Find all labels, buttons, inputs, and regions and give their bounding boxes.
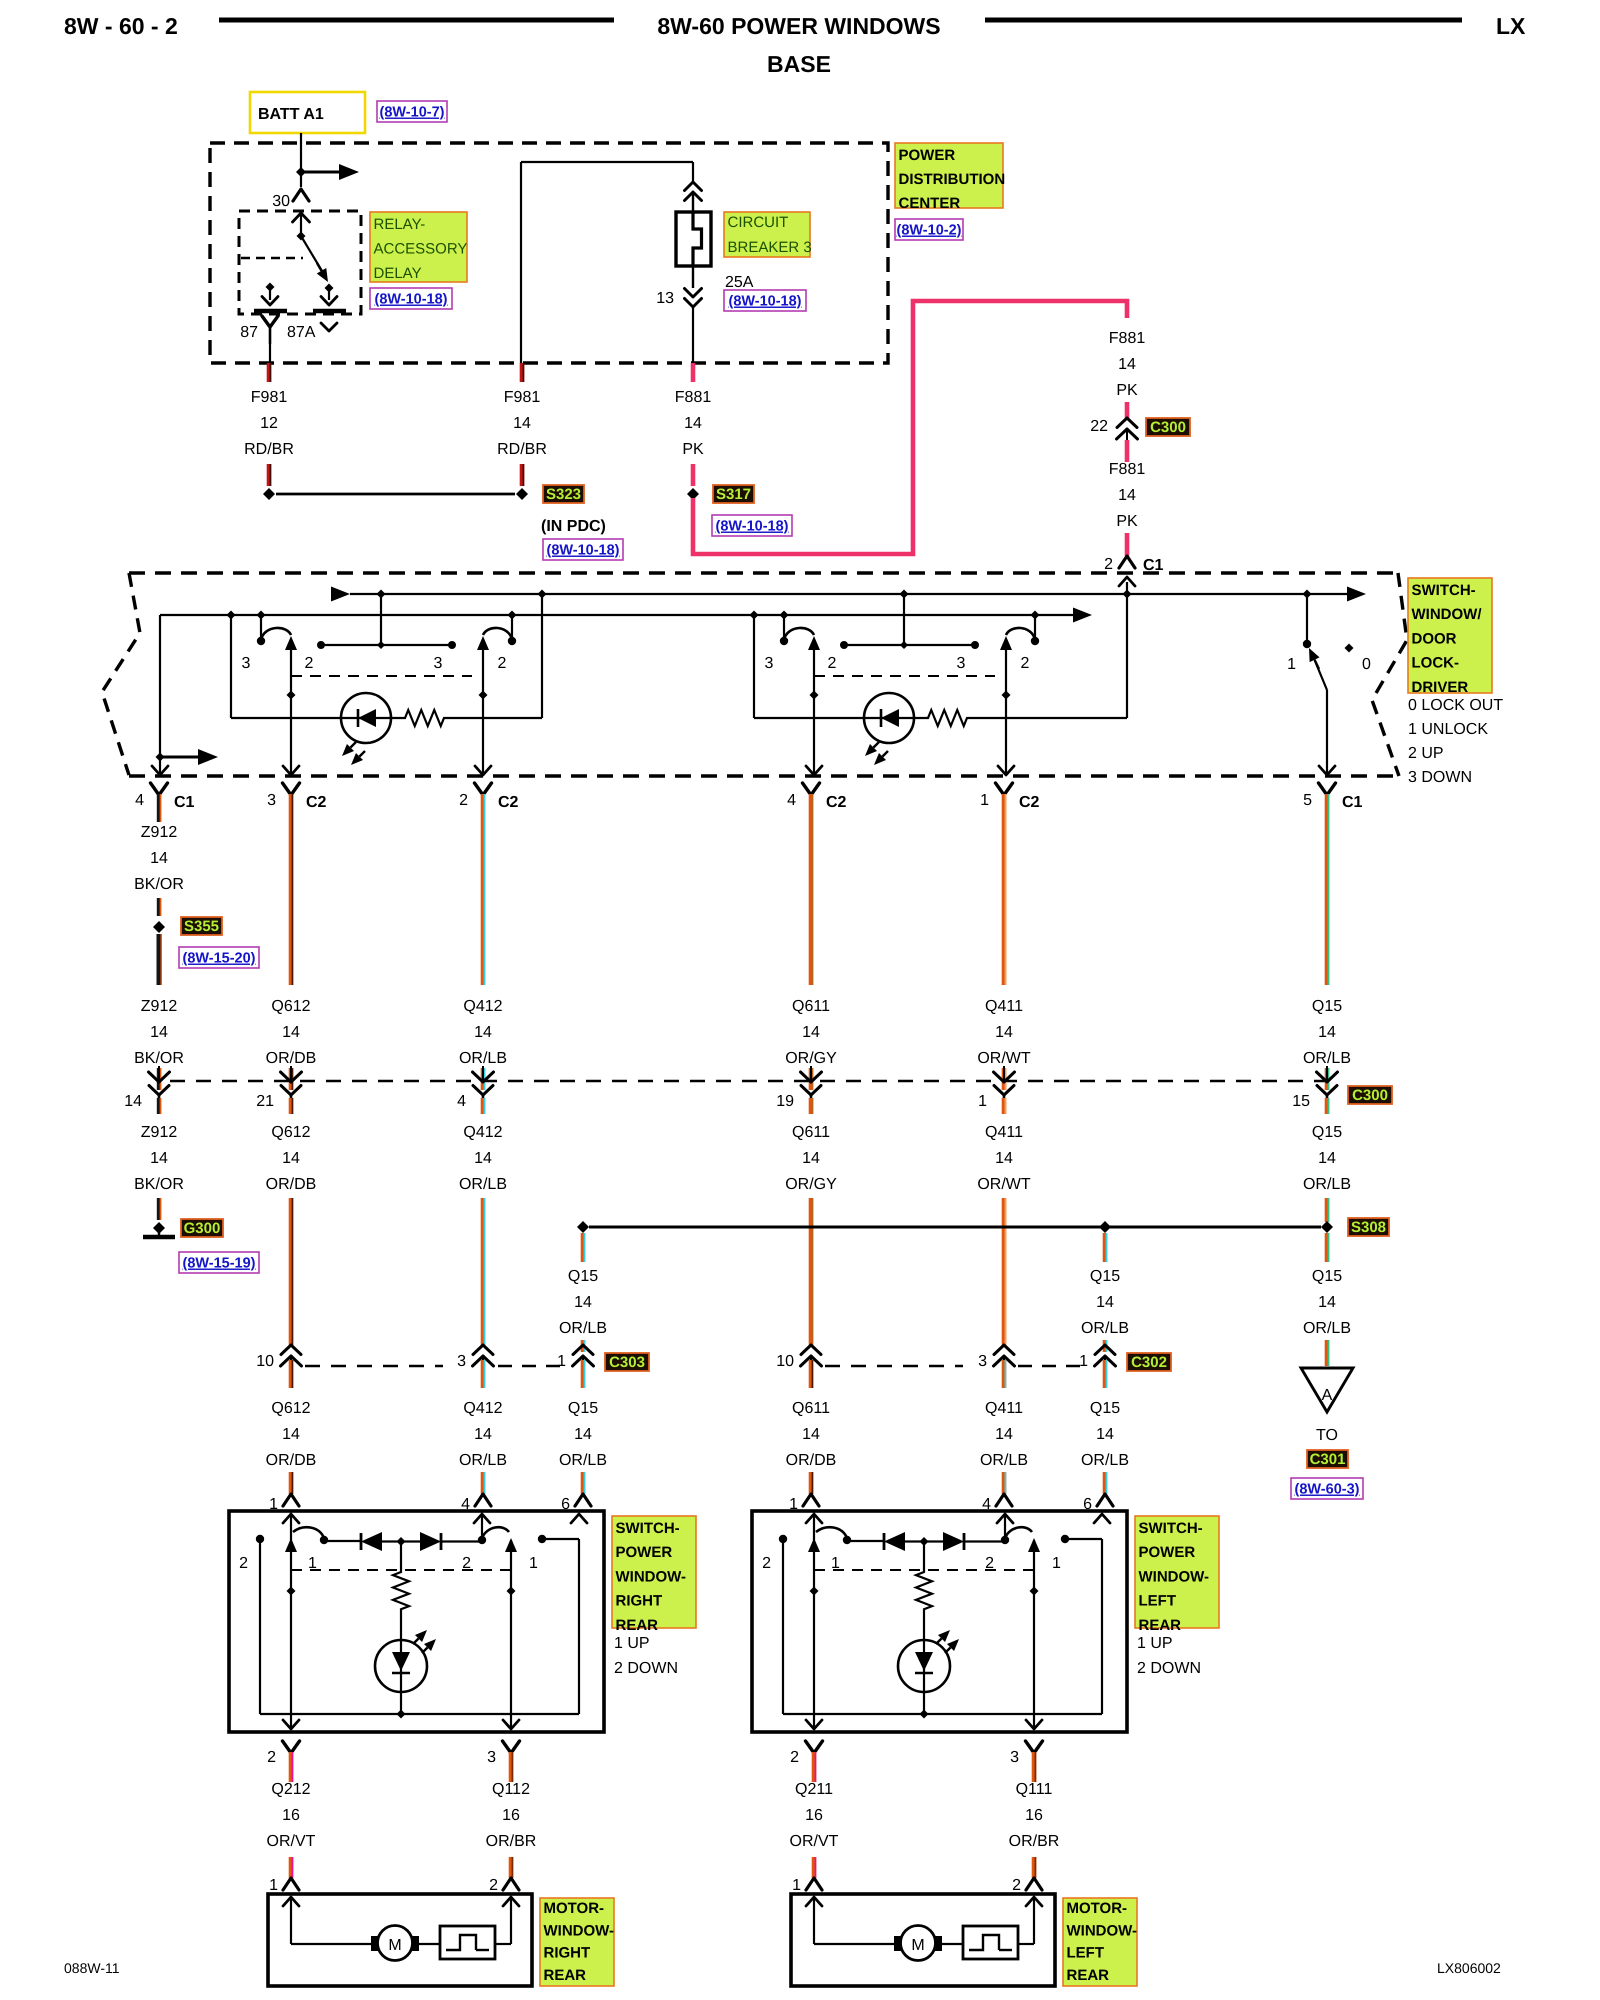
- svg-text:14: 14: [802, 1150, 820, 1167]
- node battery feed junction: [296, 167, 306, 177]
- relay accessory delay box: [239, 211, 361, 314]
- wire Q612 to C303: [289, 1198, 294, 1346]
- wire breaker to PDC edge: [692, 307, 694, 363]
- wiper B wire down: [1005, 648, 1007, 775]
- svg-text:87: 87: [240, 324, 258, 341]
- connector switch output pin 3: [503, 1741, 520, 1753]
- switch power window right rear label: [612, 1516, 696, 1628]
- svg-text:Q611: Q611: [792, 1400, 830, 1417]
- relay terminal 87 connector: [262, 316, 278, 327]
- svg-text:14: 14: [802, 1426, 820, 1443]
- common bar riser to upper rail: [380, 594, 382, 645]
- rocker contact A: [260, 615, 262, 638]
- svg-text:30: 30: [272, 193, 290, 210]
- svg-text:14: 14: [1096, 1294, 1114, 1311]
- svg-text:Q211: Q211: [795, 1781, 833, 1798]
- svg-text:14: 14: [574, 1426, 592, 1443]
- svg-text:14: 14: [474, 1150, 492, 1167]
- wire Q611 14 OR/GY upper: [809, 794, 814, 985]
- resistor riser to upper rail: [1126, 582, 1128, 718]
- splice S308 bus: [589, 1226, 1321, 1229]
- svg-text:3: 3: [765, 655, 774, 672]
- svg-text:Q15: Q15: [1090, 1400, 1120, 1417]
- svg-text:Q611: Q611: [792, 1124, 830, 1141]
- svg-text:Q412: Q412: [463, 1400, 502, 1417]
- wire Q15 to S308: [1325, 1198, 1330, 1222]
- svg-text:CENTER: CENTER: [899, 195, 961, 212]
- svg-text:WINDOW-: WINDOW-: [616, 1568, 687, 1585]
- connector C2 pin 3: [283, 783, 300, 795]
- svg-text:LOCK-: LOCK-: [1412, 655, 1460, 672]
- svg-text:14: 14: [1096, 1426, 1114, 1443]
- svg-text:POWER: POWER: [616, 1544, 673, 1561]
- connector C2 pin 1: [996, 783, 1013, 795]
- svg-text:16: 16: [282, 1807, 300, 1824]
- svg-text:3: 3: [978, 1353, 987, 1370]
- motor window right rear box: [268, 1894, 532, 1986]
- svg-text:3: 3: [434, 655, 443, 672]
- LED emission arrows: [350, 742, 356, 748]
- relay blade: [301, 236, 322, 271]
- resistor riser to upper rail: [541, 594, 543, 718]
- connector C300 pin 4: [481, 1068, 486, 1090]
- bottom bus: [783, 1713, 1102, 1715]
- wire Q412 14 OR/LB upper: [481, 794, 486, 985]
- svg-text:14: 14: [150, 850, 168, 867]
- wire F981 12 RD/BR stub: [267, 363, 272, 382]
- circuit breaker element: [693, 212, 702, 266]
- connector motor pin 2: [503, 1878, 519, 1890]
- svg-text:C300: C300: [1150, 419, 1186, 436]
- svg-text:2: 2: [828, 655, 837, 672]
- svg-text:14: 14: [1318, 1024, 1336, 1041]
- svg-text:25A: 25A: [725, 274, 754, 291]
- svg-text:BREAKER 3: BREAKER 3: [728, 239, 812, 256]
- wire Q15 right of S308: [1325, 1233, 1330, 1262]
- connector C2 pin 2: [475, 783, 492, 795]
- svg-text:C2: C2: [1019, 794, 1040, 811]
- svg-text:DRIVER: DRIVER: [1412, 679, 1469, 696]
- rocker arc 2: [481, 1514, 483, 1536]
- reference 8W-60-3: [1291, 1478, 1363, 1499]
- svg-text:14: 14: [124, 1093, 142, 1110]
- relay contact 87 node: [266, 283, 275, 292]
- connector switch pin 4: [475, 1494, 491, 1506]
- svg-text:15: 15: [1292, 1093, 1310, 1110]
- svg-text:MOTOR-: MOTOR-: [544, 1900, 605, 1917]
- svg-text:OR/LB: OR/LB: [1081, 1452, 1129, 1469]
- svg-text:BASE: BASE: [767, 51, 831, 77]
- motor M: [378, 1926, 413, 1961]
- svg-text:(8W-10-7): (8W-10-7): [380, 105, 445, 121]
- relay 87 arrow down: [269, 287, 271, 300]
- svg-text:3 DOWN: 3 DOWN: [1408, 769, 1472, 786]
- connector C302 pin 3: [994, 1345, 1014, 1355]
- connector motor pin 1: [806, 1878, 822, 1890]
- svg-text:OR/DB: OR/DB: [266, 1452, 317, 1469]
- svg-text:Q612: Q612: [271, 998, 310, 1015]
- wire Q412 to C303: [481, 1198, 486, 1346]
- wire C1-4 branch in switch: [159, 615, 161, 764]
- LED lamp: [375, 1640, 427, 1692]
- svg-text:(8W-15-20): (8W-15-20): [182, 951, 255, 967]
- connector C303 pin 1: [573, 1345, 593, 1355]
- svg-text:14: 14: [995, 1150, 1013, 1167]
- svg-text:BK/OR: BK/OR: [134, 876, 184, 893]
- reference 8W-10-18 S317: [712, 515, 792, 536]
- page header rule left: [219, 18, 614, 23]
- svg-text:Q15: Q15: [568, 1400, 598, 1417]
- rocker contact A: [783, 615, 785, 638]
- svg-text:S308: S308: [1351, 1219, 1386, 1236]
- svg-text:OR/LB: OR/LB: [1303, 1320, 1351, 1337]
- svg-text:Q15: Q15: [568, 1268, 598, 1285]
- svg-text:14: 14: [150, 1150, 168, 1167]
- svg-text:16: 16: [805, 1807, 823, 1824]
- page header rule right: [985, 18, 1462, 23]
- svg-text:OR/LB: OR/LB: [459, 1050, 507, 1067]
- relay 87A arrow down: [328, 288, 330, 300]
- lock switch feed from rail: [1303, 590, 1312, 599]
- wire Q15 14 OR/LB upper: [1325, 794, 1330, 985]
- diode feed line: [324, 1540, 360, 1542]
- motor window right rear label: [540, 1898, 614, 1986]
- pin 6 jumper: [1065, 1538, 1102, 1540]
- diode left: [883, 1533, 886, 1550]
- svg-text:0 LOCK OUT: 0 LOCK OUT: [1408, 697, 1503, 714]
- svg-text:5: 5: [1303, 792, 1312, 809]
- svg-text:(8W-10-18): (8W-10-18): [728, 294, 801, 310]
- svg-text:2: 2: [790, 1749, 799, 1766]
- svg-text:3: 3: [457, 1353, 466, 1370]
- circuit breaker top connector: [685, 182, 702, 191]
- connector C300 pin 19: [809, 1068, 814, 1090]
- svg-text:1: 1: [1052, 1555, 1061, 1572]
- svg-text:REAR: REAR: [616, 1617, 659, 1634]
- svg-text:14: 14: [1318, 1294, 1336, 1311]
- reference 8W-10-7: [377, 101, 447, 122]
- svg-text:10: 10: [256, 1353, 274, 1370]
- svg-text:BK/OR: BK/OR: [134, 1176, 184, 1193]
- connector C302 pin 10: [801, 1345, 821, 1355]
- rocker contact B: [511, 615, 513, 638]
- connector switch pin 1: [803, 1494, 819, 1506]
- wire Q15 14 OR/LB from S308: [1103, 1233, 1108, 1262]
- svg-text:4: 4: [457, 1093, 466, 1110]
- motor wiring: [813, 1897, 815, 1944]
- svg-text:C301: C301: [1310, 1451, 1346, 1468]
- center node: [397, 1537, 406, 1546]
- common contact bar: [844, 644, 975, 646]
- svg-text:(8W-10-18): (8W-10-18): [374, 292, 447, 308]
- svg-text:SWITCH-: SWITCH-: [1139, 1520, 1203, 1537]
- svg-text:C302: C302: [1131, 1354, 1167, 1371]
- connector switch pin 1: [283, 1494, 299, 1506]
- svg-text:WINDOW-: WINDOW-: [1067, 1922, 1138, 1939]
- svg-text:16: 16: [502, 1807, 520, 1824]
- rocker arc 1: [816, 1527, 847, 1538]
- motor wiring: [290, 1897, 292, 1944]
- svg-text:2: 2: [459, 792, 468, 809]
- svg-text:OR/BR: OR/BR: [486, 1833, 537, 1850]
- common contact bar: [321, 644, 452, 646]
- connector C300 pin 15: [1325, 1068, 1330, 1090]
- wiper 1 line: [813, 1514, 815, 1729]
- motor circuit breaker: [440, 1926, 495, 1959]
- wire Q611 to C302: [809, 1198, 814, 1346]
- center node: [920, 1537, 929, 1546]
- svg-text:F881: F881: [675, 389, 712, 406]
- svg-text:REAR: REAR: [1067, 1967, 1110, 1984]
- svg-text:F881: F881: [1109, 461, 1146, 478]
- svg-text:SWITCH-: SWITCH-: [616, 1520, 680, 1537]
- svg-text:Q412: Q412: [463, 998, 502, 1015]
- relay pin 30: [293, 189, 309, 201]
- svg-text:14: 14: [684, 415, 702, 432]
- svg-text:LEFT: LEFT: [1139, 1593, 1177, 1610]
- svg-text:Q612: Q612: [271, 1124, 310, 1141]
- svg-text:1 UP: 1 UP: [1137, 1635, 1173, 1652]
- svg-text:OR/GY: OR/GY: [785, 1176, 837, 1193]
- connector switch output pin 3: [1026, 1741, 1043, 1753]
- connector C302 pin 1: [1095, 1345, 1115, 1355]
- svg-text:OR/LB: OR/LB: [1081, 1320, 1129, 1337]
- illumination LED: [230, 615, 232, 718]
- reference 8W-10-2: [895, 219, 963, 240]
- reference 8W-10-18 relay: [370, 288, 452, 309]
- svg-text:Q411: Q411: [985, 1124, 1023, 1141]
- svg-text:C2: C2: [498, 794, 519, 811]
- svg-text:1: 1: [792, 1877, 801, 1894]
- motor window left rear box: [791, 1894, 1055, 1986]
- svg-text:DOOR: DOOR: [1412, 630, 1457, 647]
- C300 harness dashed line: [170, 1080, 1340, 1082]
- svg-text:LX: LX: [1496, 13, 1526, 39]
- motor M: [901, 1926, 936, 1961]
- svg-text:C303: C303: [609, 1354, 645, 1371]
- svg-text:PK: PK: [682, 441, 704, 458]
- svg-text:2: 2: [239, 1555, 248, 1572]
- svg-text:ACCESSORY: ACCESSORY: [374, 241, 468, 258]
- svg-text:8W - 60 - 2: 8W - 60 - 2: [64, 13, 178, 39]
- svg-text:(8W-60-3): (8W-60-3): [1295, 1482, 1360, 1498]
- svg-text:2 DOWN: 2 DOWN: [1137, 1660, 1201, 1677]
- relay coil dashed line: [241, 257, 303, 259]
- svg-text:1: 1: [557, 1353, 566, 1370]
- connector C303 pin 10: [281, 1345, 301, 1355]
- switch power window left rear box: [752, 1511, 1127, 1732]
- svg-text:2: 2: [1012, 1877, 1021, 1894]
- circuit breaker 3 label: [724, 212, 810, 257]
- svg-text:C1: C1: [174, 794, 195, 811]
- switch module rail taps: [750, 611, 759, 620]
- svg-text:F981: F981: [251, 389, 288, 406]
- svg-text:1: 1: [269, 1877, 278, 1894]
- ground G300: [153, 1222, 165, 1234]
- mechanical linkage dashed: [814, 675, 995, 677]
- svg-text:13: 13: [656, 290, 674, 307]
- svg-text:S323: S323: [546, 486, 581, 503]
- wiper B wire down: [482, 648, 484, 775]
- switch window door lock driver box outline: [129, 571, 1398, 574]
- connector motor pin 1: [283, 1878, 299, 1890]
- svg-text:2: 2: [305, 655, 314, 672]
- lock switch blade: [1315, 661, 1327, 690]
- svg-text:14: 14: [282, 1426, 300, 1443]
- svg-text:RD/BR: RD/BR: [244, 441, 294, 458]
- wire F981 14 feed to breaker: [520, 162, 522, 363]
- wire Q15 14 OR/LB from S308: [581, 1233, 586, 1262]
- relay accessory delay label: [370, 212, 467, 282]
- svg-text:Q112: Q112: [492, 1781, 530, 1798]
- svg-text:Q411: Q411: [985, 1400, 1023, 1417]
- svg-text:(8W-10-18): (8W-10-18): [715, 519, 788, 535]
- svg-text:OR/LB: OR/LB: [559, 1320, 607, 1337]
- svg-text:3: 3: [487, 1749, 496, 1766]
- connector C2 pin 4: [803, 783, 820, 795]
- motor circuit breaker: [963, 1926, 1018, 1959]
- svg-text:4: 4: [787, 792, 796, 809]
- switch window door lock driver label: [1408, 578, 1492, 693]
- svg-text:2: 2: [1021, 655, 1030, 672]
- svg-text:OR/LB: OR/LB: [559, 1452, 607, 1469]
- wiper 2 line: [1033, 1540, 1035, 1729]
- svg-text:MOTOR-: MOTOR-: [1067, 1900, 1128, 1917]
- svg-text:2: 2: [1104, 556, 1113, 573]
- svg-text:WINDOW-: WINDOW-: [544, 1922, 615, 1939]
- svg-text:RELAY-: RELAY-: [374, 216, 426, 233]
- circuit breaker CB3 body: [676, 212, 711, 266]
- connector C300 pin 21: [289, 1068, 294, 1090]
- pin 6 jumper: [542, 1538, 579, 1540]
- svg-text:LEFT: LEFT: [1067, 1945, 1105, 1962]
- bus rail lower in driver switch: [160, 614, 1074, 616]
- svg-text:PK: PK: [1116, 513, 1138, 530]
- svg-text:Q411: Q411: [985, 998, 1023, 1015]
- illumination LED: [753, 615, 755, 718]
- motor entry arrows: [283, 1897, 299, 1906]
- svg-text:14: 14: [1118, 356, 1136, 373]
- svg-text:OR/VT: OR/VT: [790, 1833, 839, 1850]
- svg-text:2: 2: [498, 655, 507, 672]
- mechanical linkage dashed: [291, 675, 472, 677]
- svg-text:19: 19: [776, 1093, 794, 1110]
- svg-text:1 UP: 1 UP: [614, 1635, 650, 1652]
- wire Q411 to C302: [1002, 1198, 1007, 1346]
- svg-text:POWER: POWER: [1139, 1544, 1196, 1561]
- mechanical linkage dashed: [814, 1569, 1034, 1571]
- relay terminal 87A connector: [321, 323, 337, 331]
- svg-text:87A: 87A: [287, 324, 316, 341]
- svg-text:(IN PDC): (IN PDC): [541, 518, 606, 535]
- svg-text:1: 1: [978, 1093, 987, 1110]
- svg-text:OR/LB: OR/LB: [459, 1176, 507, 1193]
- svg-text:3: 3: [267, 792, 276, 809]
- svg-text:RIGHT: RIGHT: [616, 1593, 663, 1610]
- svg-text:Q15: Q15: [1312, 998, 1342, 1015]
- svg-text:C2: C2: [826, 794, 847, 811]
- splice S323: [263, 488, 275, 500]
- svg-text:OR/LB: OR/LB: [1303, 1176, 1351, 1193]
- svg-text:21: 21: [256, 1093, 274, 1110]
- LED resistor: [393, 1545, 409, 1641]
- rocker arc 2: [1004, 1514, 1006, 1536]
- svg-text:22: 22: [1090, 418, 1108, 435]
- bus rail upper in driver switch: [331, 587, 350, 602]
- wire F881 PK routing to C300: [693, 301, 1127, 554]
- svg-text:16: 16: [1025, 1807, 1043, 1824]
- splice S355: [153, 921, 165, 933]
- battery feed BATT A1: [250, 92, 365, 133]
- svg-text:LX806002: LX806002: [1437, 1960, 1501, 1976]
- svg-text:Q412: Q412: [463, 1124, 502, 1141]
- svg-text:C1: C1: [1342, 794, 1363, 811]
- connector C303 pin 3: [473, 1345, 493, 1355]
- connector C1 pin 4: [151, 783, 168, 795]
- svg-text:1 UNLOCK: 1 UNLOCK: [1408, 721, 1488, 738]
- svg-text:1: 1: [1079, 1353, 1088, 1370]
- arrow C1-4 exit: [159, 764, 161, 775]
- wire F981 14 RD/BR stub: [520, 363, 525, 382]
- wiper 2 line: [510, 1540, 512, 1729]
- connector switch pin 4: [996, 1494, 1012, 1506]
- svg-text:14: 14: [1318, 1150, 1336, 1167]
- entry arrows pins 1 4 6: [806, 1514, 822, 1523]
- reference 8W-15-20: [179, 947, 259, 968]
- svg-text:OR/WT: OR/WT: [977, 1050, 1031, 1067]
- svg-text:10: 10: [776, 1353, 794, 1370]
- svg-text:OR/WT: OR/WT: [977, 1176, 1031, 1193]
- connector motor pin 2: [1026, 1878, 1042, 1890]
- LED emission arrows: [936, 1638, 942, 1644]
- bottom bus: [260, 1713, 579, 1715]
- svg-text:OR/DB: OR/DB: [786, 1452, 837, 1469]
- svg-text:DELAY: DELAY: [374, 265, 422, 282]
- lock switch output wire: [1326, 690, 1328, 775]
- switch module rail taps: [227, 611, 236, 620]
- diode right: [924, 1540, 943, 1542]
- LED emission arrows: [873, 742, 879, 748]
- svg-text:S317: S317: [716, 486, 751, 503]
- dimmer resistor: [391, 710, 542, 726]
- svg-text:(8W-10-18): (8W-10-18): [546, 543, 619, 559]
- wire battery to relay: [300, 133, 302, 187]
- svg-text:2: 2: [267, 1749, 276, 1766]
- connector C1 pin 5: [1319, 783, 1336, 795]
- svg-text:C2: C2: [306, 794, 327, 811]
- svg-text:RD/BR: RD/BR: [497, 441, 547, 458]
- svg-text:14: 14: [513, 415, 531, 432]
- svg-text:14: 14: [574, 1294, 592, 1311]
- svg-text:Q15: Q15: [1312, 1124, 1342, 1141]
- switch power window right rear box: [229, 1511, 604, 1732]
- svg-text:BATT A1: BATT A1: [258, 106, 324, 123]
- svg-text:Q15: Q15: [1312, 1268, 1342, 1285]
- C303 harness dashed line: [305, 1365, 443, 1367]
- svg-text:POWER: POWER: [899, 147, 956, 164]
- rocker arc 1: [293, 1527, 324, 1538]
- common bar riser to upper rail: [903, 594, 905, 645]
- svg-text:F881: F881: [1109, 330, 1146, 347]
- svg-text:0: 0: [1362, 656, 1371, 673]
- svg-text:M: M: [911, 1937, 924, 1954]
- position 2 contact stub: [256, 1535, 264, 1543]
- svg-text:8W-60 POWER WINDOWS: 8W-60 POWER WINDOWS: [657, 13, 940, 39]
- svg-text:WINDOW/: WINDOW/: [1412, 606, 1483, 623]
- connector C300 pin 14: [157, 1068, 161, 1090]
- svg-text:C300: C300: [1352, 1087, 1388, 1104]
- C302 harness dashed line: [825, 1365, 963, 1367]
